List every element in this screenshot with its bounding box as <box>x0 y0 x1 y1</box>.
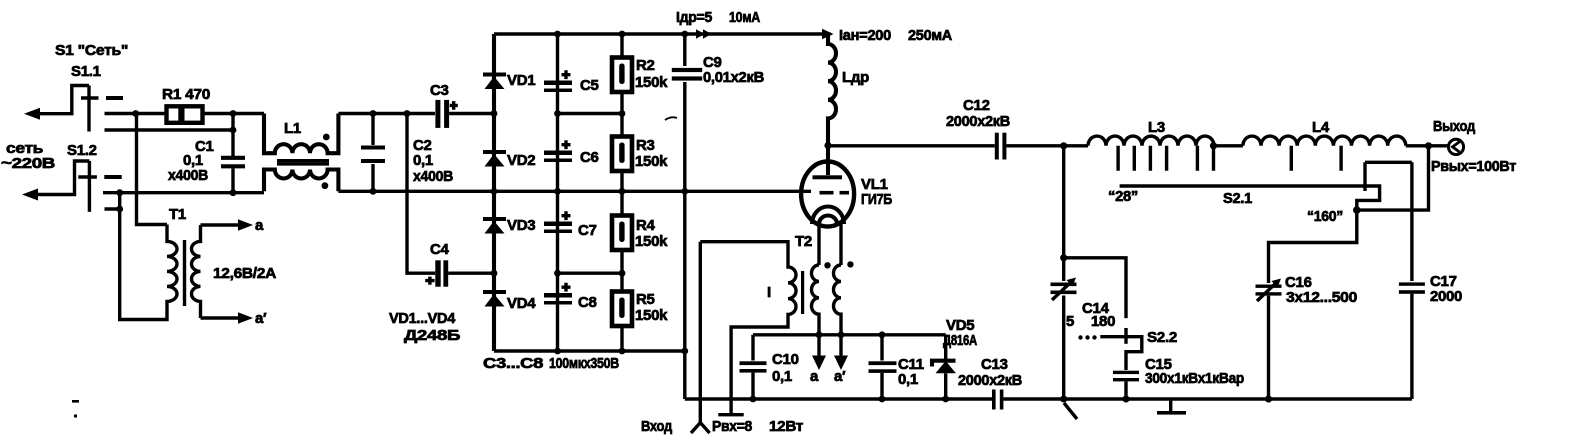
terminal a' filament arrow <box>834 335 848 385</box>
resistor R4 <box>612 216 668 251</box>
svg-text:R3: R3 <box>636 137 655 154</box>
node 160 with riser to output <box>1353 146 1429 214</box>
wire S1.2 output stub <box>105 193 124 213</box>
output connector <box>1448 139 1463 154</box>
wire ladder bottom <box>494 348 688 355</box>
svg-text:Д248Б: Д248Б <box>404 327 461 344</box>
svg-text:Рвх=8: Рвх=8 <box>712 418 752 435</box>
capacitor C11 <box>869 335 924 403</box>
svg-text:0,1: 0,1 <box>898 371 918 388</box>
label S2.1 <box>1223 190 1252 207</box>
capacitor C5 <box>544 70 599 94</box>
label 12Вт <box>769 418 803 435</box>
wire T1 primary feed <box>137 114 168 225</box>
mains input wire bottom with arrow <box>22 161 89 201</box>
svg-text:S1 "Сеть": S1 "Сеть" <box>55 42 128 59</box>
wire link level2 <box>449 110 625 117</box>
svg-text:L4: L4 <box>1312 119 1330 136</box>
diode VD3 <box>483 217 535 234</box>
svg-text:x400В: x400В <box>413 168 453 185</box>
svg-text:Д816А: Д816А <box>943 332 977 349</box>
label Вход <box>641 418 673 435</box>
svg-text:а: а <box>810 368 819 385</box>
svg-text:R1 470: R1 470 <box>162 86 210 103</box>
capacitor C15 <box>1113 356 1244 399</box>
svg-text:L3: L3 <box>1148 119 1165 136</box>
svg-text:C7: C7 <box>578 222 597 239</box>
svg-text:10мА: 10мА <box>729 9 760 26</box>
svg-text:C8: C8 <box>578 294 597 311</box>
label "28" <box>1108 188 1138 205</box>
tube VL1 <box>801 146 892 266</box>
svg-text:2000: 2000 <box>1430 288 1462 305</box>
resistor rail <box>620 34 623 351</box>
svg-text:~220В: ~220В <box>1 155 56 172</box>
svg-text:C3: C3 <box>430 82 449 99</box>
svg-text:“160”: “160” <box>1307 208 1343 225</box>
svg-text:Выход: Выход <box>1433 118 1476 135</box>
svg-text:VD1...VD4: VD1...VD4 <box>389 310 456 327</box>
wire L4 to output <box>1406 142 1449 149</box>
wire mains line L (W1) <box>105 110 265 117</box>
svg-text:а′: а′ <box>834 368 846 385</box>
svg-text:12Вт: 12Вт <box>769 418 803 435</box>
capacitor C1 <box>168 114 245 193</box>
svg-text:VD4: VD4 <box>507 295 536 312</box>
svg-text:R5: R5 <box>636 291 655 308</box>
svg-text:VD1: VD1 <box>507 72 535 89</box>
terminal a (T1 top) <box>201 217 265 234</box>
terminal a filament arrow <box>810 335 826 385</box>
wire grid line level3 <box>338 188 811 195</box>
choke L1 <box>264 114 338 192</box>
resistor R5 <box>612 291 668 326</box>
svg-text:150k: 150k <box>635 74 668 91</box>
capacitor C9 <box>672 54 765 86</box>
switch S2.1 <box>1120 162 1412 209</box>
svg-text:Вход: Вход <box>641 418 673 435</box>
current arrow Idr with labels <box>676 9 760 39</box>
current arrow Ian with labels <box>822 27 952 44</box>
label Выход <box>1433 118 1476 135</box>
svg-text:300х1кВх1кВар: 300х1кВх1кВар <box>1145 370 1244 387</box>
svg-text:0,01x2кВ: 0,01x2кВ <box>703 69 764 86</box>
diode VD1 <box>483 72 535 89</box>
diode rail <box>492 34 496 351</box>
transformer T1 <box>120 206 277 320</box>
capacitor C13 <box>958 356 1022 410</box>
svg-text:R4: R4 <box>636 217 656 234</box>
choke Ldr <box>828 34 869 146</box>
mains input wire top with arrow <box>24 86 89 120</box>
wire neutral rail (W3) <box>103 189 264 196</box>
svg-text:0,1: 0,1 <box>413 152 433 169</box>
svg-text:C12: C12 <box>963 97 990 114</box>
capacitor C17 <box>1399 162 1462 399</box>
svg-text:ГИ7Б: ГИ7Б <box>861 191 892 208</box>
svg-text:S2.2: S2.2 <box>1147 329 1177 346</box>
svg-text:“28”: “28” <box>1108 188 1138 205</box>
svg-text:C10: C10 <box>772 351 799 368</box>
inductor L3 <box>1088 119 1217 171</box>
wire input line with terminal <box>691 242 710 433</box>
diode VD4 <box>483 290 536 312</box>
svg-text:12,6В/2А: 12,6В/2А <box>213 265 276 282</box>
svg-text:x400В: x400В <box>168 167 208 184</box>
capacitor C2 <box>361 114 453 192</box>
wire mains line 2 (W2) <box>105 127 237 134</box>
svg-text:T2: T2 <box>795 233 812 250</box>
wire link level4 <box>491 270 626 277</box>
svg-text:S2.1: S2.1 <box>1223 190 1252 207</box>
label сеть ~220В <box>1 140 56 172</box>
transformer T2 <box>700 233 853 399</box>
svg-text:S1.1: S1.1 <box>71 63 101 80</box>
far rail with corner to bottom <box>683 34 686 399</box>
capacitor rail <box>556 34 559 351</box>
svg-text:C5: C5 <box>580 77 599 94</box>
terminal a' (T1 bottom) <box>201 310 268 327</box>
svg-text:100мкх350В: 100мкх350В <box>549 355 619 372</box>
svg-text:а: а <box>255 217 264 234</box>
svg-text:а′: а′ <box>255 310 267 327</box>
label Рвх=8 <box>712 418 752 435</box>
switch S2.2 <box>1064 258 1177 370</box>
label Рвых=100Вт <box>1431 158 1516 175</box>
capacitor C6 <box>544 140 599 166</box>
capacitor C14 <box>1051 278 1116 331</box>
svg-text:VD2: VD2 <box>507 152 535 169</box>
wire bottom rail right of C13 <box>1003 395 1412 402</box>
capacitor C16 <box>1256 210 1358 399</box>
wire bottom rail left of C13 <box>685 397 992 400</box>
label VD1...VD4 Д248Б <box>389 310 461 344</box>
label S1 "Сеть" <box>55 42 128 80</box>
capacitor C12 <box>946 97 1088 160</box>
capacitor C10 <box>740 335 799 403</box>
switch S1.1 <box>81 86 123 132</box>
svg-text:3x12...500: 3x12...500 <box>1286 289 1357 306</box>
svg-text:250мА: 250мА <box>908 27 952 44</box>
svg-text:5: 5 <box>1066 313 1074 330</box>
svg-text:150k: 150k <box>635 233 668 250</box>
label "160" <box>1307 208 1343 225</box>
svg-text:S1.2: S1.2 <box>67 142 97 159</box>
svg-text:180: 180 <box>1091 313 1115 330</box>
svg-text:2000x2кВ: 2000x2кВ <box>958 372 1022 389</box>
wire C4 branch <box>407 114 435 274</box>
svg-text:C4: C4 <box>430 241 450 258</box>
zener VD5 <box>932 317 977 402</box>
svg-text:150k: 150k <box>635 307 668 324</box>
svg-text:C6: C6 <box>580 149 599 166</box>
svg-text:I: I <box>767 284 771 301</box>
capacitor C3 <box>430 82 458 128</box>
svg-text:L1: L1 <box>284 120 301 137</box>
wire anode to C12 <box>824 142 994 149</box>
svg-text:0,1: 0,1 <box>772 368 792 385</box>
svg-text:Iдр=5: Iдр=5 <box>676 9 712 26</box>
svg-text:Iан=200: Iан=200 <box>839 27 891 44</box>
svg-text:2000x2кВ: 2000x2кВ <box>946 113 1010 130</box>
wire top rail <box>494 31 831 38</box>
capacitor C8 <box>544 283 597 311</box>
label С3...С8 100мкх350В <box>483 355 619 372</box>
capacitor C7 <box>544 211 597 239</box>
wire L3 to L4 <box>1214 144 1243 147</box>
resistor R2 <box>612 57 668 92</box>
ground <box>1157 399 1186 415</box>
ground T2 <box>718 399 743 416</box>
wire L1 to ladder top <box>338 110 435 117</box>
resistor R3 <box>612 137 668 172</box>
svg-text:150k: 150k <box>635 153 668 170</box>
svg-text:Lдр: Lдр <box>842 69 869 86</box>
capacitor C4 <box>425 241 494 287</box>
inductor L4 <box>1243 119 1406 171</box>
capacitor C14 branch rail <box>1060 146 1067 399</box>
diode VD2 <box>483 150 535 169</box>
svg-text:Рвых=100Вт: Рвых=100Вт <box>1431 158 1516 175</box>
resistor R1 <box>162 86 210 123</box>
svg-text:C13: C13 <box>981 356 1008 373</box>
svg-text:R2: R2 <box>636 57 655 74</box>
svg-text:T1: T1 <box>169 206 186 223</box>
svg-text:С3...С8: С3...С8 <box>483 355 543 372</box>
wire filament bus <box>753 331 946 338</box>
svg-text:VD3: VD3 <box>507 217 535 234</box>
dust marks <box>72 117 1077 419</box>
switch S1.2 <box>67 142 122 212</box>
